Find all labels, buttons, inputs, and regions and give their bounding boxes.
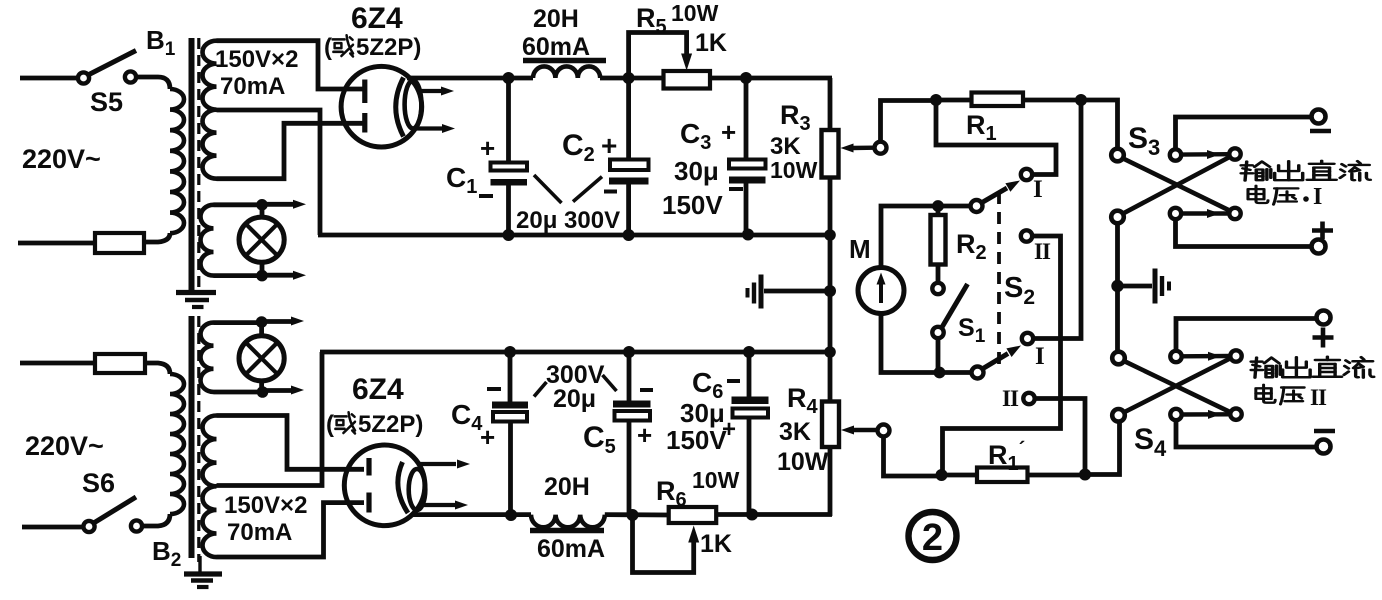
label - (C4) — [487, 387, 501, 391]
S3 contact lower arrow — [1181, 211, 1229, 215]
wire S3 pole2 to common — [1115, 223, 1120, 286]
junction C5 bottom — [627, 509, 639, 521]
svg-text:10W: 10W — [692, 467, 740, 493]
svg-text:150V×2: 150V×2 — [224, 492, 307, 519]
ground at B1 core — [176, 290, 216, 295]
junction R3 bottom — [824, 229, 836, 241]
label - (output I) — [1310, 129, 1331, 134]
svg-text:(: ( — [324, 34, 332, 61]
capacitor C3 stem top — [744, 78, 749, 160]
label - (C6) — [727, 379, 740, 383]
svg-text:220V~: 220V~ — [22, 144, 101, 174]
svg-text:S5: S5 — [90, 87, 123, 117]
capacitor C1 stem bottom — [506, 185, 511, 235]
label huo in (or 5Z2P) bottom — [335, 412, 355, 433]
S3 pole 2 — [1111, 211, 1124, 224]
svg-text:5Z2P): 5Z2P) — [358, 411, 423, 438]
resistor R1 body — [972, 93, 1024, 107]
slant pointer to C1 — [534, 175, 562, 203]
capacitor C5 stem top — [627, 352, 632, 401]
junction C2/R5 left — [623, 72, 635, 84]
svg-text:II: II — [1310, 385, 1327, 410]
label - (C5) — [640, 388, 653, 392]
label - (output II) — [1314, 429, 1335, 434]
capacitor C1 plus plate — [491, 163, 528, 171]
S2 contact I lower — [1022, 333, 1033, 344]
svg-text:S6: S6 — [82, 468, 115, 498]
wire S5 to transformer B1 primary — [137, 77, 171, 89]
S2 contact II upper — [1021, 230, 1032, 241]
svg-text:C5: C5 — [583, 421, 616, 458]
wire lamp2 bottom — [259, 380, 264, 392]
label output DC voltage II (line 2) — [1256, 385, 1275, 403]
transformer B2 filament winding — [200, 323, 213, 392]
terminal output II minus — [1317, 440, 1331, 454]
rheostat R5 body — [664, 71, 711, 89]
label output DC voltage I (line 2) — [1248, 186, 1268, 203]
wire R4 wiper down to R1' node — [884, 437, 941, 477]
capacitor C5 plus plate — [615, 411, 651, 421]
underline 60mA — [523, 58, 606, 64]
svg-text:+: + — [480, 133, 495, 163]
arrow filament lead 1 — [262, 202, 294, 207]
junction R2 top — [932, 200, 944, 212]
meter M bottom wire — [881, 314, 972, 373]
S4 contact lower end — [1230, 409, 1241, 420]
svg-text:R1: R1 — [966, 110, 997, 145]
tube V1 heater arrow 1 — [419, 89, 443, 93]
wire S6 to primary bottom — [143, 514, 171, 526]
wire upper contact II to R4-wiper node — [943, 236, 1061, 475]
capacitor C2 minus plate — [609, 178, 649, 185]
wire V2 to choke L2 — [411, 512, 531, 517]
S4 lever cross 2 — [1124, 358, 1231, 412]
transformer B2 primary winding — [170, 374, 184, 514]
S3 contact upper end — [1229, 148, 1240, 159]
S3 contact lower end — [1229, 208, 1240, 219]
junction S1 bottom — [934, 367, 946, 379]
svg-text:II: II — [1002, 386, 1019, 411]
S3 contact upper arrow — [1181, 152, 1229, 157]
label + (output I) — [1312, 228, 1333, 233]
label + (output II) — [1313, 335, 1334, 340]
capacitor C5 minus plate — [613, 401, 651, 408]
wire R1' left — [942, 473, 978, 478]
junction common/ground — [1111, 280, 1123, 292]
meter rail top — [936, 98, 1081, 103]
ground at B2 core — [198, 556, 201, 574]
arrow R5 wiper down — [681, 54, 692, 71]
switch S6 pole contact — [83, 521, 94, 532]
junction C6 top — [743, 346, 755, 358]
svg-text:150V: 150V — [662, 190, 723, 220]
svg-text:II: II — [1034, 239, 1051, 264]
slant pointer to C2 — [573, 177, 602, 202]
svg-text:220V~: 220V~ — [25, 431, 104, 461]
wire filament bottom lead — [214, 273, 263, 278]
svg-text:150V×2: 150V×2 — [215, 46, 298, 73]
svg-text:70mA: 70mA — [220, 73, 285, 100]
junction C6 bottom — [746, 509, 758, 521]
junction C3 top — [740, 72, 752, 84]
capacitor C1 stem top — [506, 78, 511, 163]
wire common to S4 pole1 — [1115, 286, 1120, 352]
capacitor C3 stem bottom — [744, 183, 749, 235]
wire R6 to R4 corner — [716, 512, 832, 517]
tube V1 cathode ellipse — [405, 81, 422, 129]
svg-text:20μ: 20μ — [553, 385, 596, 413]
resistor R2 body — [931, 215, 946, 265]
svg-text:6Z4: 6Z4 — [351, 2, 403, 35]
label - (C1) — [479, 194, 493, 198]
S4 contact upper — [1170, 351, 1181, 362]
svg-text:C2: C2 — [562, 129, 595, 166]
meter M needle — [879, 281, 883, 303]
fuse F2 — [95, 354, 145, 373]
wire fuse2 to primary — [145, 363, 170, 374]
tube V1 plate 1 — [362, 80, 367, 104]
S3 pole 1 — [1111, 149, 1124, 162]
wire HV2 bottom lead to plate 2 — [217, 503, 365, 557]
capacitor C6 stem bottom — [747, 418, 752, 515]
svg-text:C1: C1 — [446, 162, 477, 198]
S2 ganged link (dashed) — [997, 192, 1001, 367]
wire R3 wiper up to meter rail — [881, 101, 937, 142]
transformer B1 filament winding — [200, 205, 213, 276]
R6 wiper return loop — [633, 515, 694, 573]
svg-text:R3: R3 — [780, 100, 811, 135]
svg-text:R2: R2 — [956, 229, 987, 264]
meter M top wire — [881, 206, 971, 268]
wire AC input bottom-section top line — [20, 361, 96, 366]
wire R5 to R3 corner — [710, 76, 832, 81]
svg-text:B1: B1 — [146, 25, 176, 60]
svg-text:R5: R5 — [636, 3, 667, 38]
main vertical rail bottom (R4) — [828, 447, 833, 516]
wire filament2 bottom lead — [214, 390, 263, 395]
svg-text:20H: 20H — [533, 5, 579, 33]
svg-text:70mA: 70mA — [227, 519, 292, 546]
svg-text:150V: 150V — [666, 425, 727, 455]
tube V1 cathode arc — [396, 78, 404, 137]
svg-text:5Z2P): 5Z2P) — [356, 34, 421, 61]
wire to lamp1 — [260, 205, 265, 218]
arrow filament2 lead 1 — [262, 319, 292, 324]
potentiometer R3 body — [822, 130, 839, 178]
svg-text:(: ( — [326, 411, 334, 438]
wire lamp1 bottom — [260, 262, 265, 277]
wire output I plus — [1176, 219, 1312, 247]
capacitor C6 minus plate — [732, 397, 769, 405]
capacitor C2 stem top — [626, 78, 631, 160]
tube V1 6Z4 envelope — [341, 66, 422, 147]
label output DC voltage II (line 1) — [1251, 358, 1280, 378]
svg-text:S4: S4 — [1134, 423, 1167, 461]
label 6Z4 top rail wire — [407, 76, 533, 81]
wire R1' right — [1028, 473, 1086, 478]
svg-text:B2: B2 — [152, 536, 181, 571]
chassis ground (right) — [1123, 284, 1152, 289]
wire upper contact I to R1 left node — [936, 100, 1056, 175]
wire R2 bottom stub — [936, 265, 941, 284]
wire HV bottom lead to 6Z4 plate 2 — [217, 123, 365, 178]
tube V1 plate 2 — [362, 113, 367, 133]
switch S6 lever — [95, 497, 137, 523]
junction C4 bottom — [505, 509, 517, 521]
svg-text:I: I — [1313, 184, 1322, 210]
capacitor C3 minus plate — [729, 177, 766, 184]
underline 60mA (L2) — [530, 528, 604, 534]
transformer B1 primary winding — [170, 89, 184, 233]
R3 wiper arrow — [841, 144, 854, 153]
wire R1 right to S3 pole — [1081, 100, 1118, 148]
tube V2 cathode ellipse — [409, 469, 426, 510]
svg-text:60mA: 60mA — [522, 33, 590, 61]
tube V1 heater arrow 2 — [415, 126, 445, 130]
svg-text:10W: 10W — [671, 0, 719, 26]
wire output I minus — [1176, 117, 1312, 150]
wire R2 top stub — [936, 206, 941, 215]
svg-text:20H: 20H — [544, 473, 590, 501]
svg-text:M: M — [849, 234, 871, 264]
switch S1 lever — [942, 284, 968, 328]
tube V2 plate 1 — [366, 458, 371, 476]
S4 lever cross 1 — [1124, 361, 1231, 413]
wire fuse to primary bottom — [144, 233, 170, 242]
arrow filament lead 2 — [262, 273, 294, 278]
transformer B2 core — [189, 316, 195, 558]
R4 wiper terminal — [878, 425, 890, 437]
svg-text:20μ 300V: 20μ 300V — [516, 207, 620, 234]
capacitor C5 stem bottom — [627, 421, 632, 516]
resistor R1' body — [977, 468, 1028, 483]
tube V2 heater arrow 1 — [420, 462, 456, 466]
S4 pole 2 — [1112, 409, 1125, 422]
svg-text:2: 2 — [922, 517, 943, 559]
svg-text:I: I — [1033, 176, 1043, 203]
svg-text:60mA: 60mA — [537, 535, 605, 563]
tube V2 plate 2 — [366, 493, 371, 513]
main vertical rail (R3 top) — [828, 78, 833, 132]
transformer B2 HV secondary winding — [203, 416, 217, 558]
svg-text:S3: S3 — [1128, 122, 1160, 160]
junction lamp1 top — [256, 199, 268, 211]
junction R1 right — [1075, 94, 1087, 106]
wire HV2 center tap to rail — [217, 352, 323, 486]
terminal output I plus — [1312, 240, 1326, 254]
main vertical rail mid — [828, 178, 833, 404]
svg-text:3K: 3K — [770, 133, 801, 160]
svg-text:10W: 10W — [777, 448, 829, 476]
capacitor C6 plus plate — [733, 409, 769, 418]
svg-text:S1: S1 — [958, 314, 986, 347]
junction C1 bottom — [503, 229, 515, 241]
tube V2 cathode arc — [398, 462, 408, 513]
wire to lamp2 — [259, 322, 264, 336]
wire AC bottom line to S6 — [22, 525, 83, 530]
S4 contact lower — [1170, 409, 1181, 420]
chassis ground tap (center) — [824, 285, 836, 297]
wire R5 bypass loop — [629, 33, 687, 79]
junction C5 top — [623, 346, 635, 358]
wire AC input bottom line to fuse — [18, 241, 96, 246]
potentiometer R4 body — [822, 402, 839, 448]
wire HV center tap to return rail — [217, 110, 321, 235]
S3 contact upper — [1170, 149, 1181, 160]
capacitor C6 stem top — [747, 352, 752, 397]
indicator lamp 2 — [239, 336, 284, 381]
meter M — [858, 268, 904, 314]
transformer B1 core — [189, 38, 195, 291]
svg-text:+: + — [637, 420, 652, 450]
junction R1' right — [1079, 469, 1091, 481]
S2 lower lever with arrow — [983, 354, 1008, 369]
switch S5 throw contact — [125, 71, 136, 82]
R3 wiper terminal — [875, 142, 887, 154]
capacitor C2 plus plate — [610, 160, 649, 171]
indicator lamp 1 — [239, 217, 284, 262]
R2 bottom terminal — [932, 283, 943, 294]
wire R1' node to S4 pole — [1085, 422, 1120, 475]
fuse F1 — [95, 233, 144, 253]
junction C2 bottom — [623, 229, 635, 241]
junction lamp1 bottom — [256, 270, 268, 282]
capacitor C4 minus plate — [492, 402, 528, 409]
switch S6 throw contact — [131, 520, 142, 531]
wire HV top lead to 6Z4 plate 1 — [217, 41, 365, 89]
capacitor C4 plus plate — [493, 412, 527, 422]
S3 contact lower — [1170, 208, 1181, 219]
S4 pole 1 — [1112, 352, 1125, 365]
capacitor C2 stem bottom — [626, 184, 631, 235]
svg-text:3K: 3K — [779, 418, 811, 446]
svg-text:S2: S2 — [1004, 272, 1035, 309]
svg-text:10W: 10W — [770, 157, 818, 183]
wire S1 to bottom wire — [936, 338, 941, 373]
S3 lever cross 1 — [1123, 158, 1231, 211]
wire output II plus — [1176, 319, 1317, 352]
svg-text:+: + — [601, 130, 617, 161]
switch S5 lever — [89, 51, 136, 75]
bottom section top rail — [320, 350, 832, 355]
svg-text:R6: R6 — [656, 476, 687, 511]
svg-text:6Z4: 6Z4 — [352, 373, 404, 406]
slant pointer to C5 — [603, 375, 617, 391]
S3 lever cross 2 — [1123, 157, 1231, 214]
wire AC input top line to S5 — [20, 76, 79, 81]
R4 wiper arrow — [841, 426, 854, 435]
svg-text:+: + — [722, 416, 736, 443]
junction C3 bottom — [742, 229, 754, 241]
S2 contact II lower — [1023, 393, 1034, 404]
svg-text:I: I — [1035, 343, 1045, 370]
svg-text:+: + — [480, 422, 495, 452]
svg-text:1K: 1K — [695, 29, 727, 57]
S4 contact lower arrow — [1182, 412, 1231, 417]
S4 contact upper end — [1230, 350, 1241, 361]
junction R1' left — [936, 469, 948, 481]
svg-text:1K: 1K — [700, 530, 732, 558]
choke L1 20H 60mA — [533, 66, 600, 78]
slant pointer to C4 — [534, 382, 547, 397]
wire filament top lead — [214, 202, 263, 207]
svg-text:C3: C3 — [680, 118, 711, 154]
switch S5 pole contact — [78, 72, 89, 83]
terminal output I minus — [1312, 110, 1326, 124]
wire choke2 to R6 — [605, 512, 670, 517]
S2 lower pole — [972, 367, 984, 379]
svg-text:30μ: 30μ — [674, 156, 719, 186]
wire choke to R5 — [600, 76, 664, 81]
junction lamp2 bottom — [257, 386, 269, 398]
capacitor C3 plus plate — [729, 160, 766, 169]
capacitor C4 stem bottom — [508, 422, 513, 516]
arrow filament2 lead 2 — [263, 388, 293, 393]
transformer B1 HV secondary winding 150Vx2 — [203, 41, 217, 179]
junction C1 top — [503, 72, 515, 84]
capacitor C1 minus plate — [491, 179, 528, 186]
capacitor C4 stem top — [508, 352, 513, 402]
tube V2 6Z4 envelope — [344, 445, 425, 526]
svg-text:R4: R4 — [787, 383, 819, 418]
label - (C2) — [604, 190, 617, 194]
wire lower contact II to R1' right node — [1035, 399, 1086, 471]
wire filament2 top lead — [214, 320, 262, 325]
choke L2 20H 60mA — [531, 515, 605, 528]
label huo in (or 5Z2P) top — [333, 35, 353, 56]
junction R1 left — [930, 94, 942, 106]
svg-text:+: + — [721, 117, 736, 147]
wire HV2 top lead to plate 1 — [217, 416, 365, 470]
arrow R6 wiper up — [688, 526, 699, 543]
switch S1 contact — [932, 327, 943, 338]
svg-text:C4: C4 — [451, 399, 483, 435]
label output DC voltage I (line 1) — [1241, 162, 1271, 181]
wire output II minus — [1176, 420, 1317, 447]
junction C4 top — [504, 346, 516, 358]
junction lamp2 top — [256, 316, 268, 328]
S2 contact I upper — [1021, 169, 1032, 180]
terminal output II plus — [1317, 311, 1331, 325]
S2 upper lever with arrow — [982, 188, 1007, 203]
figure number 2 (circled) — [909, 512, 957, 560]
S4 contact upper arrow — [1182, 354, 1231, 359]
tube V2 heater arrow 2 — [421, 503, 455, 507]
wire lower contact I to R1 right node — [1033, 100, 1081, 339]
return rail top section — [318, 233, 832, 238]
S2 upper pole — [971, 200, 983, 212]
junction main rail / bottom section — [824, 346, 836, 358]
svg-text:30μ: 30μ — [680, 398, 725, 428]
rheostat R6 body — [669, 507, 717, 523]
